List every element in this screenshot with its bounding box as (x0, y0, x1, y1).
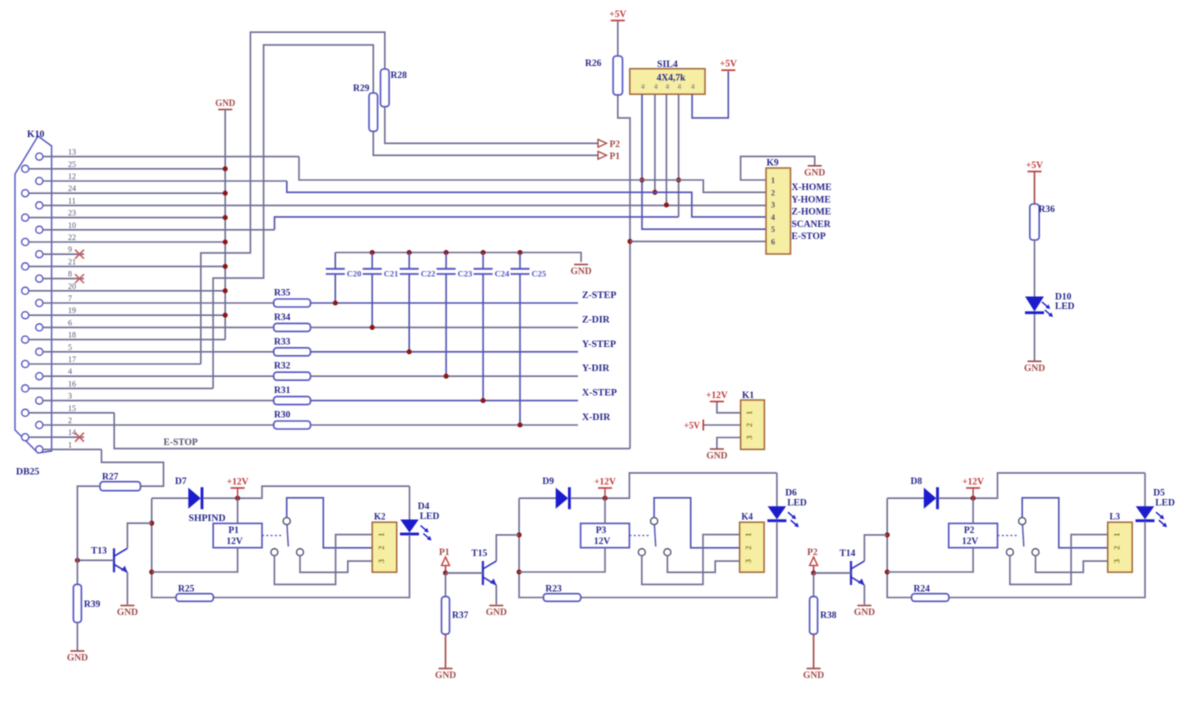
svg-text:K2: K2 (374, 512, 386, 522)
svg-text:1: 1 (68, 440, 72, 449)
svg-text:7: 7 (68, 294, 72, 303)
wire T13 base (77, 559, 114, 561)
svg-text:D8: D8 (911, 477, 923, 487)
svg-text:Y-HOME: Y-HOME (792, 195, 831, 205)
wire diode row (519, 497, 556, 499)
relay contact lever (654, 525, 655, 547)
svg-text:4: 4 (68, 367, 72, 376)
wire capacitor ground rail (335, 253, 581, 263)
wire K10 pin 2 to R30 (43, 424, 274, 426)
no-connect X on pin 8 (75, 274, 84, 283)
K10 pin 20 circle (22, 287, 29, 294)
wire diode row (152, 497, 189, 499)
svg-text:3: 3 (377, 559, 386, 563)
svg-text:R30: R30 (274, 411, 291, 421)
svg-text:20: 20 (68, 282, 76, 291)
svg-text:GND: GND (67, 654, 88, 664)
resistor R25 (176, 594, 213, 602)
svg-text:D5: D5 (1153, 489, 1165, 499)
svg-text:GND: GND (1024, 364, 1045, 374)
port arrow P1 (598, 151, 607, 159)
diode D8 (924, 489, 935, 508)
junction C22 / signal line (407, 349, 412, 354)
relay coil P2 body (949, 523, 998, 547)
K10 pin 14 circle (22, 434, 29, 441)
svg-text:E-STOP: E-STOP (164, 438, 198, 448)
resistor R37 (442, 597, 450, 635)
wire R27 left to base node (77, 486, 100, 560)
LED D6 (769, 507, 786, 519)
svg-text:D10: D10 (1055, 293, 1072, 303)
svg-text:D6: D6 (785, 489, 797, 499)
svg-text:+12V: +12V (594, 478, 616, 488)
wire T14 emitter to GND (863, 585, 865, 605)
LED D10 arrows (1042, 302, 1049, 308)
wire right throw to K4 pin 3 (667, 556, 739, 573)
junction GND bus / pin 25 (223, 166, 228, 171)
svg-text:R33: R33 (274, 337, 291, 347)
junction rail / C23 (444, 250, 449, 255)
connector K9 body (766, 168, 791, 254)
SIL4 pin marks (642, 84, 647, 90)
ground symbol (capacitor rail) (574, 264, 588, 266)
wire T13 emitter to GND (126, 572, 128, 604)
wire SIL4 pin 1 down to SCANER line (642, 94, 766, 229)
K10 pin 16 circle (22, 385, 29, 392)
relay P3 actuation dashed link (629, 535, 651, 537)
junction rail / C24 (481, 250, 486, 255)
svg-text:R26: R26 (585, 59, 602, 69)
K10 pin 17 circle (22, 360, 29, 367)
wire R36 to D10 (1034, 240, 1036, 297)
K10 pin 9 circle (36, 251, 43, 258)
svg-text:R32: R32 (274, 362, 291, 372)
K4 pin 2 number (744, 546, 753, 550)
svg-text:22: 22 (68, 233, 76, 242)
diode D9 (556, 489, 567, 508)
wire base node down to R39 (76, 560, 78, 584)
wire K10 pin 12 to jog (43, 180, 287, 182)
K10 pin 7 circle (36, 299, 43, 306)
junction collector node (517, 532, 522, 537)
junction base node (P1) (443, 570, 448, 575)
wire R35 to net stub (311, 302, 579, 304)
svg-text:GND: GND (117, 608, 138, 618)
resistor R32 (274, 372, 311, 380)
capacitor C24 (482, 253, 484, 269)
K2 pin 3 number (377, 559, 386, 563)
resistor R36 (1030, 204, 1039, 240)
junction +12V node (235, 496, 240, 501)
junction C23 / signal line (444, 374, 449, 379)
junction SIL4 pin1 / X-HOME line (639, 177, 644, 182)
wire D8 anode rail down to collector node (887, 498, 911, 597)
resistor R33 (274, 348, 311, 356)
wire K10 pin 20 to GND bus (29, 290, 225, 292)
junction coil-return node (517, 569, 522, 574)
wire +5V to R26 (617, 21, 619, 57)
svg-text:DB25: DB25 (16, 467, 40, 478)
junction SIL4 pin4 / X-HOME line (676, 177, 681, 182)
wire D9 cathode to +12V node and top rail (570, 473, 777, 498)
power +5V (K1, rotated) (702, 420, 704, 431)
junction C20 / signal line (333, 300, 338, 305)
junction SIL4 pin2 / line (652, 190, 657, 195)
relay contact lever (1023, 525, 1024, 547)
K2 pin 1 number (377, 533, 386, 537)
LED D6 arrows (788, 512, 795, 518)
wire left throw to K2 pin 1 (274, 535, 372, 585)
svg-text:15: 15 (68, 404, 76, 413)
relay contact throw left (271, 549, 278, 556)
junction GND bus / pin 20 (223, 288, 228, 293)
svg-text:4X4,7k: 4X4,7k (657, 74, 686, 84)
wire T15 collector (496, 535, 519, 561)
svg-text:21: 21 (68, 257, 76, 266)
svg-text:Z-HOME: Z-HOME (792, 208, 832, 218)
svg-text:17: 17 (68, 355, 76, 364)
relay coil P1 body (213, 523, 262, 547)
wire SIL4 common pin to +5V (692, 71, 728, 118)
wire R39 to GND (76, 623, 78, 651)
wire D7 anode rail down to collector node (152, 498, 176, 597)
svg-text:25: 25 (68, 160, 76, 169)
relay contact common (283, 518, 290, 525)
svg-text:D4: D4 (418, 502, 430, 512)
port arrow P1 (input) (442, 557, 450, 566)
diode D7 (189, 489, 200, 508)
svg-text:K1: K1 (742, 391, 754, 401)
wire top rail down to D6 (776, 473, 778, 507)
wire common contact to K4 pin 2 (654, 498, 740, 548)
resistor R24 (912, 594, 949, 602)
wire base node down to R38 (813, 573, 815, 597)
K10 pin 10 circle (36, 226, 43, 233)
svg-text:Z-STEP: Z-STEP (582, 290, 616, 301)
ground symbol (K1) (710, 448, 724, 450)
svg-text:R24: R24 (914, 585, 931, 595)
wire P3 coil to collector node (519, 548, 605, 572)
junction coil-return node (149, 569, 154, 574)
no-connect X on pin 9 (75, 250, 84, 259)
wire K10 pin 10 to jog (43, 229, 275, 231)
capacitor C21 (371, 253, 373, 269)
junction +12V node (971, 496, 976, 501)
wire P1 coil to collector node (152, 548, 238, 572)
wire K10 pin 22 to GND bus (29, 241, 225, 243)
transistor T13 (113, 548, 115, 572)
wire D5 down to R24 (949, 521, 1145, 597)
K10 pin 11 circle (36, 202, 43, 209)
svg-text:3: 3 (771, 201, 775, 210)
junction rail / C25 (517, 250, 522, 255)
wire C22 down to signal line (408, 275, 410, 352)
wire D10 to GND (1034, 314, 1036, 361)
svg-text:SHPIND: SHPIND (189, 513, 226, 524)
svg-text:18: 18 (68, 331, 76, 340)
wire R31 to net stub (311, 400, 579, 402)
resistor R26 (613, 56, 622, 95)
K1 pin 3 number (745, 436, 754, 440)
wire R26 down to E-STOP bus (618, 95, 630, 449)
junction +12V node (602, 496, 607, 501)
wire R30 to net stub (311, 424, 579, 426)
wire K10 pin 1 to R27 jog (43, 448, 102, 450)
relay contact lever (287, 525, 288, 547)
svg-text:5: 5 (771, 225, 775, 234)
relay contact throw left (638, 549, 645, 556)
wire K10 pin 25 to GND bus (29, 168, 225, 170)
junction GND bus / pin 19 (223, 313, 228, 318)
wire P1 arrow to base node (445, 566, 447, 574)
resistor R23 (543, 594, 580, 602)
svg-text:+12V: +12V (706, 391, 728, 401)
wire top rail down to D4 (409, 486, 411, 520)
relay coil P3 body (581, 523, 630, 547)
K4 pin 3 number (744, 559, 753, 563)
connector K4 body (740, 522, 765, 572)
svg-text:14: 14 (68, 428, 76, 437)
junction GND bus / pin 24 (223, 191, 228, 196)
connector K10 DB25 body (15, 136, 52, 453)
svg-text:LED: LED (420, 512, 440, 522)
relay P1 actuation dashed link (262, 535, 284, 537)
ground symbol (R37) (439, 668, 453, 670)
wire T14 base (813, 572, 851, 574)
svg-text:X-DIR: X-DIR (582, 412, 611, 423)
svg-text:K9: K9 (767, 159, 779, 169)
svg-text:D7: D7 (175, 477, 187, 487)
wire E-STOP horizontal to DB25 pin 15 (114, 413, 630, 449)
ground symbol (T15 emitter) (489, 605, 503, 607)
svg-text:R38: R38 (820, 611, 837, 621)
svg-text:T14: T14 (840, 549, 856, 559)
wire P2 arrow to base node (813, 566, 815, 574)
svg-text:+5V: +5V (684, 421, 701, 431)
wire diode row (887, 497, 924, 499)
svg-text:+5V: +5V (1026, 161, 1043, 171)
relay contact throw right (297, 549, 304, 556)
svg-text:T13: T13 (91, 547, 107, 557)
K10 pin 3 circle (36, 397, 43, 404)
svg-text:+5V: +5V (720, 60, 737, 70)
relay contact common (1019, 518, 1026, 525)
wire R29 to P1 arrow (373, 131, 597, 155)
wire R33 to net stub (311, 351, 579, 353)
svg-text:1: 1 (771, 176, 775, 185)
wire K10 pin 7 to R35 (43, 302, 274, 304)
K10 pin 13 circle (36, 153, 43, 160)
LED D4 arrows (421, 526, 428, 532)
wire K1 pin 1 to +12V (717, 402, 741, 413)
K4 pin 1 number (744, 533, 753, 537)
svg-text:R23: R23 (545, 585, 562, 595)
K10 pin 5 circle (36, 348, 43, 355)
svg-text:12V: 12V (226, 537, 243, 547)
relay P2 actuation dashed link (998, 535, 1020, 537)
K10 pin 1 circle (36, 446, 43, 453)
svg-text:R28: R28 (391, 71, 408, 81)
svg-text:10: 10 (68, 221, 76, 230)
no-connect X on pin 14 (75, 433, 84, 442)
K10 pin 24 circle (22, 190, 29, 197)
wire loop pin17 up to R28 (201, 32, 385, 364)
junction base node (75, 558, 80, 563)
ground symbol (R38) (807, 668, 821, 670)
transistor T14 (850, 561, 852, 585)
capacitor C22 (408, 253, 410, 269)
svg-text:R25: R25 (178, 585, 195, 595)
resistor R28 (381, 69, 390, 107)
svg-text:13: 13 (68, 148, 76, 157)
svg-text:4x: 4x (666, 84, 671, 90)
svg-text:E-STOP: E-STOP (792, 232, 826, 242)
svg-text:2: 2 (1112, 546, 1121, 550)
wire T15 emitter to GND (495, 585, 497, 605)
svg-text:R29: R29 (353, 84, 370, 94)
wire K10 pin 19 to GND bus (29, 314, 225, 316)
K10 pin 12 circle (36, 177, 43, 184)
capacitor C23 (445, 253, 447, 269)
resistor R31 (274, 397, 311, 405)
svg-text:P2: P2 (610, 140, 621, 150)
wire K10 pin 16 to loop up to R29 (29, 387, 213, 389)
wire +12V node to P3 coil (604, 498, 606, 523)
wire D6 down to R23 (581, 521, 777, 597)
wire left throw to L3 pin 1 (1010, 535, 1108, 585)
K10 pin 8 circle (36, 275, 43, 282)
svg-text:12V: 12V (594, 537, 611, 547)
svg-text:P1: P1 (610, 152, 621, 162)
wire T14 collector (864, 535, 887, 561)
connector K2 body (372, 522, 397, 572)
svg-text:Z-DIR: Z-DIR (582, 314, 611, 325)
svg-text:6: 6 (68, 318, 72, 327)
LED D5 arrows (1156, 512, 1163, 518)
svg-text:GND: GND (571, 267, 592, 277)
wire right throw to L3 pin 3 (1036, 556, 1108, 573)
K10 pin 6 circle (36, 324, 43, 331)
wire net pin10: jog up and across to SIL4 pin 4 (275, 217, 679, 230)
svg-text:5: 5 (68, 343, 72, 352)
K2 pin 2 number (377, 546, 386, 550)
svg-text:LED: LED (787, 499, 807, 509)
resistor R34 (274, 323, 311, 331)
ground symbol (D10) (1028, 360, 1042, 362)
wire K10 pin 6 to R34 (43, 326, 274, 328)
L3 pin 2 number (1112, 546, 1121, 550)
ground symbol (T14 emitter) (857, 605, 871, 607)
relay contact throw left (1006, 549, 1013, 556)
junction collector node (149, 521, 154, 526)
wire SIL4 pin 3 down (665, 94, 667, 205)
wire K1 pin 2 to +5V (703, 424, 740, 426)
K1 pin 2 number (745, 423, 754, 427)
wire common contact to L3 pin 2 (1022, 498, 1107, 548)
wire X-HOME net: pin13 jog down and across to K9 pin 2 (299, 157, 766, 193)
svg-text:C20: C20 (347, 269, 362, 279)
wire K10 pin 15 to E-STOP jog (29, 412, 114, 414)
junction SIL4 pin3 / Y-HOME line (664, 202, 669, 207)
svg-text:GND: GND (854, 608, 875, 618)
K10 pin 19 circle (22, 312, 29, 319)
wire D7 cathode to +12V node and top rail (203, 486, 410, 498)
svg-text:X-HOME: X-HOME (792, 183, 832, 193)
wire C21 down to signal line (371, 275, 373, 328)
svg-text:4x: 4x (642, 84, 647, 90)
K10 pin 2 circle (36, 421, 43, 428)
svg-text:GND: GND (435, 671, 456, 681)
wire common contact to K2 pin 2 (287, 498, 373, 548)
wire R37 to GND (445, 634, 447, 668)
wire C20 down to signal line (334, 275, 336, 304)
wire +12V node to P2 coil (972, 498, 974, 523)
wire SIL4 pin 2 down (654, 94, 656, 192)
svg-text:P2: P2 (964, 526, 975, 536)
svg-text:C25: C25 (532, 269, 547, 279)
svg-text:12: 12 (68, 172, 76, 181)
svg-text:GND: GND (486, 608, 507, 618)
svg-text:GND: GND (804, 168, 825, 178)
wire SIL4 pin 4 down (678, 94, 680, 217)
svg-text:R27: R27 (102, 473, 119, 483)
svg-text:+5V: +5V (609, 10, 626, 20)
wire R38 to GND (813, 634, 815, 668)
svg-text:GND: GND (803, 671, 824, 681)
wire GND bus vertical (224, 110, 226, 340)
K10 pin 4 circle (36, 373, 43, 380)
wire K10 pin 8 stub (no connect) (43, 278, 84, 280)
svg-text:SCANER: SCANER (792, 220, 831, 230)
svg-text:4x: 4x (678, 84, 683, 90)
wire loop pin16 up to R29 (213, 45, 373, 389)
junction GND bus / pin 23 (223, 215, 228, 220)
svg-text:12V: 12V (962, 537, 979, 547)
svg-text:1: 1 (745, 411, 754, 415)
svg-text:9: 9 (68, 245, 72, 254)
wire K9 pin 1 to GND (741, 156, 815, 180)
svg-text:C21: C21 (384, 269, 399, 279)
capacitor C20 (334, 253, 336, 269)
wire left throw to K4 pin 1 (642, 535, 740, 585)
junction GND bus / pin 22 (223, 239, 228, 244)
wire K10 pin 18 to GND bus end (29, 339, 225, 341)
junction collector node (885, 532, 890, 537)
junction C24 / signal line (481, 398, 486, 403)
svg-text:C24: C24 (495, 269, 510, 279)
K10 pin 21 circle (22, 263, 29, 270)
svg-text:2: 2 (744, 546, 753, 550)
svg-text:GND: GND (215, 98, 236, 108)
resistor R39 (73, 584, 81, 622)
resistor R29 (369, 93, 378, 131)
svg-text:4x: 4x (654, 84, 659, 90)
svg-text:LED: LED (1055, 302, 1075, 312)
wire P2 base wire (814, 572, 851, 574)
resistor R35 (274, 299, 311, 307)
wire K1 pin 3 to GND (717, 438, 741, 449)
wire R34 to net stub (311, 326, 579, 328)
ground symbol (K9 pin 1) (808, 165, 822, 167)
svg-text:T15: T15 (471, 549, 487, 559)
svg-text:Y-DIR: Y-DIR (582, 363, 610, 374)
capacitor C25 (519, 253, 521, 269)
wire K10 pin 9 stub (no connect) (43, 253, 84, 255)
wire right throw to K2 pin 3 (300, 556, 372, 573)
wire K10 pin 11 to K9 pin 3 (Y-HOME net) (43, 204, 766, 206)
wire K10 pin 24 to GND bus (29, 192, 225, 194)
svg-text:8: 8 (68, 270, 72, 279)
